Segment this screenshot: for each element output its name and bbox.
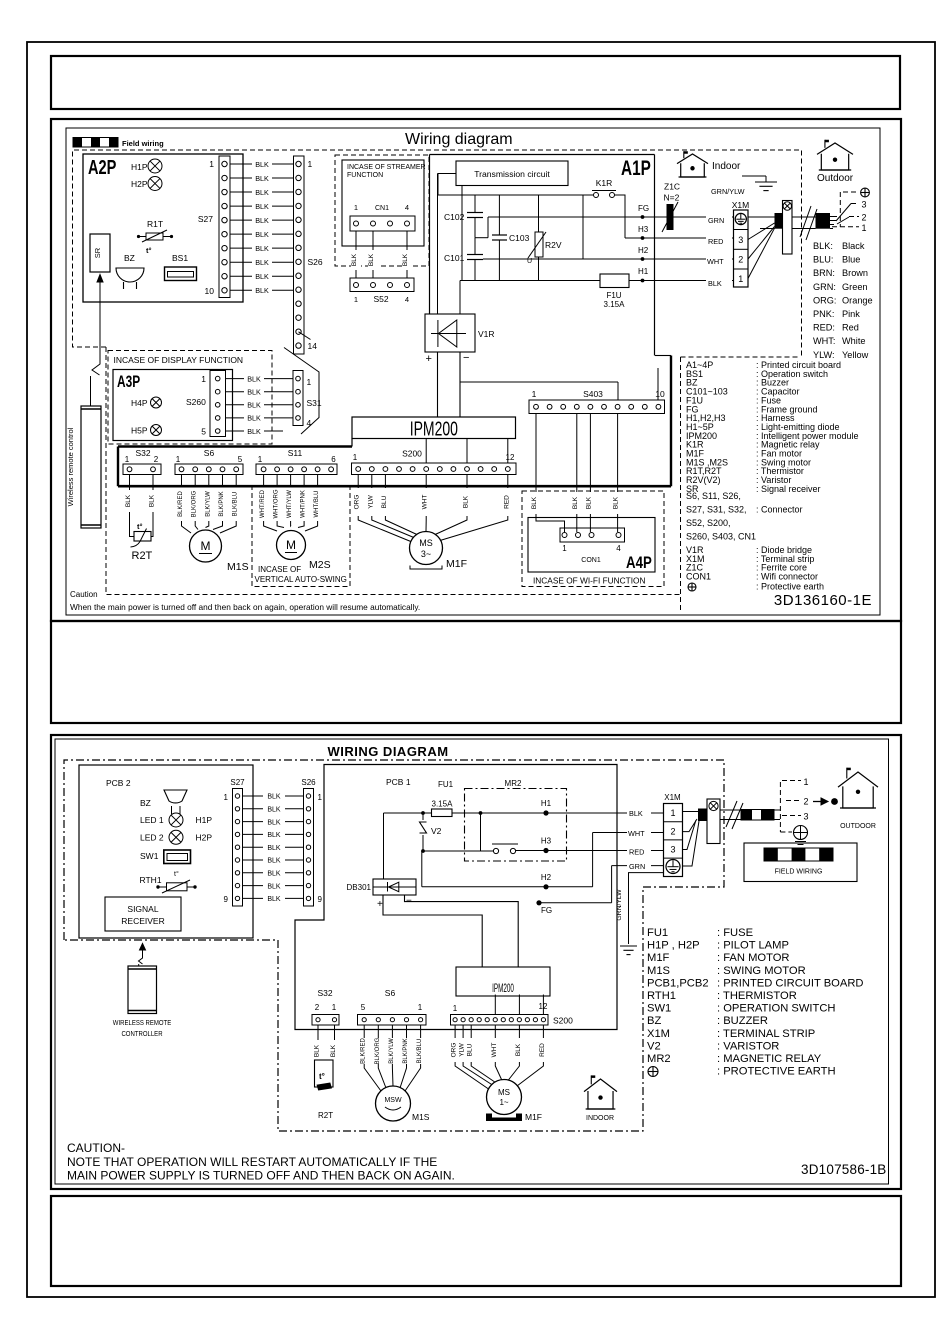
svg-text:CAUTION-: CAUTION- [67, 1141, 125, 1155]
ground symbol indoor [742, 176, 777, 191]
svg-text:BZ: BZ [647, 1015, 661, 1027]
svg-text:INCASE OF: INCASE OF [258, 565, 301, 574]
A1P pcb outline corner [655, 355, 671, 357]
svg-text:: MAGNETIC RELAY: : MAGNETIC RELAY [717, 1053, 822, 1065]
svg-text:2: 2 [804, 797, 809, 807]
svg-text:BLK: BLK [368, 253, 375, 266]
svg-text:3: 3 [670, 845, 675, 855]
svg-text:4: 4 [405, 203, 409, 212]
svg-text:10: 10 [205, 286, 215, 296]
svg-text:6: 6 [331, 455, 336, 464]
svg-text:: BUZZER: : BUZZER [717, 1015, 768, 1027]
svg-text:S27, S31, S32,: S27, S31, S32, [686, 505, 747, 515]
field cable to outdoor [748, 201, 837, 279]
wire DB301 ac input [383, 813, 385, 879]
svg-text:BLK: BLK [247, 414, 261, 423]
svg-text:BLK: BLK [255, 244, 269, 253]
connector S26 [294, 156, 323, 354]
wire H3 line bottom [516, 837, 664, 854]
svg-text:Indoor: Indoor [712, 161, 741, 172]
terminal strip X1M [732, 200, 749, 287]
svg-text:1~: 1~ [499, 1098, 508, 1107]
svg-text:RTH1: RTH1 [647, 990, 676, 1002]
svg-text:M1S: M1S [412, 1112, 430, 1122]
svg-text:1: 1 [354, 203, 358, 212]
svg-text:YLW: YLW [459, 1042, 466, 1056]
magnetic relay MR2 box [465, 779, 567, 861]
svg-text:H2: H2 [541, 873, 552, 882]
svg-text:C103: C103 [509, 233, 530, 243]
svg-text:1: 1 [418, 1003, 423, 1012]
svg-text:H1P , H2P: H1P , H2P [647, 940, 700, 952]
svg-text:−: − [406, 896, 412, 907]
legend component list [686, 360, 859, 592]
svg-text:BLK/RED: BLK/RED [178, 491, 184, 517]
outdoor unit dash-dot boundary [64, 760, 724, 1131]
svg-text:S26: S26 [308, 257, 323, 267]
svg-text:BLK: BLK [255, 216, 269, 225]
connector CN1 [350, 203, 415, 231]
indoor house icon [677, 151, 741, 177]
connector S52 [350, 278, 414, 304]
capacitor C103 [492, 195, 530, 281]
led H5P [131, 425, 162, 436]
caution note [70, 590, 420, 612]
svg-text:BLK: BLK [314, 1044, 321, 1057]
svg-text:INCASE OF WI-FI FUNCTION: INCASE OF WI-FI FUNCTION [533, 576, 645, 586]
svg-text:BRN:: BRN: [813, 268, 835, 278]
svg-text:BLK:: BLK: [813, 241, 833, 251]
svg-text:Green: Green [842, 282, 868, 292]
svg-text:4: 4 [307, 418, 312, 428]
legend component list bottom [647, 927, 864, 1078]
svg-text:BLK/ORG: BLK/ORG [192, 490, 198, 517]
svg-text:BLK/PNK: BLK/PNK [403, 1038, 409, 1063]
svg-text:1: 1 [224, 793, 229, 802]
middle empty box [51, 621, 901, 723]
indoor house icon bottom [584, 1075, 617, 1122]
drawing number 3D107586-1B [801, 1162, 887, 1177]
svg-text:ORG: ORG [354, 495, 361, 510]
outdoor house icon bottom [838, 768, 878, 830]
svg-text:4: 4 [616, 544, 621, 553]
wire relay feed [421, 813, 493, 853]
outdoor terminal callout bottom [780, 777, 808, 845]
svg-text:10: 10 [655, 389, 665, 399]
buzzer BZ [116, 253, 144, 289]
svg-text:Black: Black [842, 241, 865, 251]
svg-text:PCB 1: PCB 1 [386, 777, 411, 787]
svg-text:Caution: Caution [70, 590, 98, 599]
relay contact MR2 [492, 844, 518, 854]
diode bridge DB301 [347, 879, 416, 910]
svg-text:X1M: X1M [664, 793, 681, 802]
connector S6 bottom [358, 988, 427, 1025]
svg-text:S27: S27 [198, 214, 213, 224]
outdoor terminal callout 3 2 1 [832, 188, 869, 233]
svg-text:S52: S52 [373, 294, 388, 304]
svg-text:BLK: BLK [255, 286, 269, 295]
svg-text:Blue: Blue [842, 255, 860, 265]
top empty title box [51, 56, 900, 109]
svg-text:Orange: Orange [842, 295, 873, 305]
svg-text:WHT/ORG: WHT/ORG [274, 489, 280, 518]
svg-text:BLK: BLK [267, 819, 281, 826]
connector S200 bottom [451, 1002, 574, 1026]
svg-text:WHT/YLW: WHT/YLW [287, 490, 293, 518]
thermistor RTH1 [140, 870, 197, 893]
svg-text:C102: C102 [444, 212, 465, 222]
svg-text:BLK: BLK [531, 496, 538, 509]
svg-text:BLK: BLK [629, 809, 643, 818]
svg-text:: TERMINAL STRIP: : TERMINAL STRIP [717, 1028, 815, 1040]
connector CON1 [560, 528, 652, 572]
svg-text:BLK: BLK [255, 202, 269, 211]
pcb A2P [83, 154, 243, 302]
connector S27 bottom [224, 778, 246, 906]
svg-text:BLK: BLK [247, 388, 261, 397]
wires S6 to M1S bottom [361, 1025, 423, 1091]
svg-text:WHT: WHT [628, 829, 645, 838]
svg-text:BLK: BLK [708, 279, 722, 288]
svg-text:t°: t° [174, 870, 179, 878]
svg-text:Pink: Pink [842, 309, 860, 319]
wires S27 to S26 BLK x10 [230, 160, 294, 295]
svg-text:: Signal receiver: : Signal receiver [756, 484, 821, 494]
arrow to outdoor [813, 798, 838, 805]
svg-text:INCASE OF STREAMER: INCASE OF STREAMER [347, 164, 426, 171]
svg-text:1: 1 [201, 374, 206, 384]
fan motor M1F bottom [486, 1080, 542, 1123]
svg-text:2: 2 [670, 827, 675, 837]
swing motor M1S bottom [376, 1086, 430, 1122]
svg-text:White: White [842, 336, 866, 346]
svg-text:5: 5 [361, 1003, 366, 1012]
svg-text:: VARISTOR: : VARISTOR [717, 1040, 779, 1052]
svg-text:5: 5 [201, 427, 206, 437]
wires CN1 to S52 BLK x3 [351, 231, 412, 278]
svg-text:BLK: BLK [572, 496, 579, 509]
svg-text:WHT/BLU: WHT/BLU [314, 491, 320, 518]
svg-text:FG: FG [638, 204, 649, 213]
wire GRN to ground [612, 866, 664, 944]
svg-text:RED: RED [539, 1043, 546, 1057]
incase of vertical auto-swing box [252, 487, 350, 587]
connector S11 [256, 448, 337, 475]
wireless remote control arrow [91, 275, 104, 407]
svg-text:3: 3 [862, 200, 867, 210]
svg-text:1: 1 [318, 793, 323, 802]
svg-text:PNK:: PNK: [813, 309, 834, 319]
svg-text:Yellow: Yellow [842, 350, 869, 360]
svg-text:V2: V2 [431, 826, 442, 836]
svg-text:BLK: BLK [247, 374, 261, 383]
svg-text:: FUSE: : FUSE [717, 927, 753, 939]
wires S11 to M2S [260, 475, 320, 532]
svg-text:BLK: BLK [267, 794, 281, 801]
svg-text:Field wiring: Field wiring [122, 139, 164, 148]
wires DB301 to IPM200 [383, 895, 518, 967]
svg-text:BLK/BLU: BLK/BLU [233, 492, 239, 517]
svg-text:BLK: BLK [613, 496, 620, 509]
svg-text:BLK: BLK [255, 174, 269, 183]
svg-text:WHT/RED: WHT/RED [260, 489, 266, 518]
svg-text:BLK: BLK [255, 188, 269, 197]
wires S260 to S31 BLK x5 [226, 374, 294, 435]
svg-text:M2S: M2S [309, 559, 331, 571]
svg-text:BS1: BS1 [172, 253, 188, 263]
thermistor R1T [137, 219, 173, 255]
svg-text:H1: H1 [541, 799, 552, 808]
svg-text:: OPERATION SWITCH: : OPERATION SWITCH [717, 1003, 836, 1015]
ferrite core Z1C [662, 182, 680, 233]
svg-text:: Protective earth: : Protective earth [756, 582, 824, 592]
lower wiring diagram panel border [51, 735, 901, 1189]
svg-text:MS: MS [498, 1088, 510, 1097]
svg-text:BLK: BLK [247, 401, 261, 410]
svg-text:BLK: BLK [330, 1044, 337, 1057]
svg-text:MR2: MR2 [505, 779, 522, 788]
svg-text:R2T: R2T [318, 1111, 333, 1120]
incase of display function box [108, 351, 272, 445]
svg-text:3D136160-1E: 3D136160-1E [774, 592, 872, 609]
svg-text:Wireless remote control: Wireless remote control [66, 427, 75, 506]
svg-text:1: 1 [209, 159, 214, 169]
svg-text:GRN:: GRN: [813, 282, 836, 292]
svg-text:BLK: BLK [267, 883, 281, 890]
svg-text:BLK: BLK [515, 1043, 522, 1056]
connector S403 [529, 389, 665, 414]
wires S6 to M1S [178, 475, 239, 534]
wires S32 to R2T BLK x2 [125, 475, 156, 508]
svg-text:Red: Red [842, 323, 859, 333]
pcb PCB2 [79, 765, 253, 938]
svg-text:1: 1 [353, 453, 358, 462]
thermistor R2T bottom [315, 1060, 334, 1120]
svg-text:M1F: M1F [525, 1112, 542, 1122]
wires IPM200 to S200 bottom [495, 995, 543, 1015]
svg-text:ORG:: ORG: [813, 295, 836, 305]
harness outline S26 to S31 [284, 332, 319, 434]
svg-text:VERTICAL AUTO-SWING: VERTICAL AUTO-SWING [255, 575, 347, 584]
svg-text:When the main power is turned: When the main power is turned off and th… [70, 602, 420, 612]
svg-text:GRN/YLW: GRN/YLW [616, 889, 623, 921]
svg-text:2: 2 [862, 213, 867, 223]
svg-text:V1R: V1R [478, 329, 495, 339]
svg-text:BZ: BZ [124, 253, 135, 263]
wire H3 line [625, 225, 734, 240]
svg-text:RED:: RED: [813, 323, 835, 333]
wireless remote controller arrow bottom [139, 944, 146, 967]
wires S200 to M1F bottom [451, 1025, 546, 1090]
svg-text:N=2: N=2 [664, 193, 680, 203]
field wiring legend checker [73, 138, 164, 149]
svg-text:FU1: FU1 [647, 927, 668, 939]
svg-text:PCB1,PCB2: PCB1,PCB2 [647, 977, 709, 989]
svg-text:M: M [286, 538, 296, 552]
svg-text:RED: RED [708, 237, 723, 246]
svg-text:WIRING DIAGRAM: WIRING DIAGRAM [327, 744, 448, 759]
svg-text:V2: V2 [647, 1040, 661, 1052]
svg-text:Transmission circuit: Transmission circuit [474, 169, 550, 179]
svg-text:BLU: BLU [381, 495, 388, 508]
svg-text:H2P: H2P [196, 833, 213, 843]
wire H2 line bottom [422, 833, 664, 890]
title Wiring diagram [405, 131, 513, 148]
svg-text:Z1C: Z1C [664, 182, 680, 192]
svg-text:BLK: BLK [463, 495, 470, 508]
svg-text:BLK: BLK [267, 871, 281, 878]
svg-text:MSW: MSW [384, 1097, 402, 1104]
svg-text:MR2: MR2 [647, 1053, 671, 1065]
svg-text:3.15A: 3.15A [604, 300, 626, 309]
svg-text:1: 1 [125, 455, 130, 464]
svg-text:1: 1 [354, 295, 358, 304]
svg-text:H4P: H4P [131, 398, 148, 408]
svg-text:A1P: A1P [621, 156, 651, 180]
svg-text:WHT: WHT [422, 495, 429, 510]
signal receiver SR [90, 234, 110, 272]
svg-text:X1M: X1M [732, 200, 749, 210]
svg-text:2: 2 [315, 1003, 320, 1012]
svg-text:BLK: BLK [255, 230, 269, 239]
svg-text:BLU: BLU [467, 1043, 474, 1056]
signal receiver block [105, 897, 181, 931]
frame ground FG bottom [536, 866, 611, 915]
svg-text:BLK: BLK [267, 832, 281, 839]
svg-text:1: 1 [804, 777, 809, 787]
wire labels BLK WHT RED GRN bottom [627, 807, 651, 871]
led LED 2 H2P [140, 830, 212, 844]
svg-text:LED 1: LED 1 [140, 815, 164, 825]
svg-text:: Connector: : Connector [756, 505, 803, 515]
svg-text:BLK/PNK: BLK/PNK [219, 491, 225, 516]
svg-text:BLK: BLK [255, 272, 269, 281]
svg-text:FUNCTION: FUNCTION [347, 172, 383, 179]
capacitor C102 [444, 195, 488, 238]
fuse FU1 [432, 780, 454, 817]
wires IPM200 to S200 [426, 439, 508, 464]
svg-text:BLK/YLW: BLK/YLW [205, 491, 211, 517]
swing motor M2S [277, 531, 331, 572]
svg-text:S6, S11, S26,: S6, S11, S26, [686, 491, 741, 501]
title WIRING DIAGRAM [327, 744, 448, 759]
svg-text:FG: FG [541, 906, 552, 915]
svg-text:BLK: BLK [267, 896, 281, 903]
svg-text:H1P: H1P [131, 162, 148, 172]
module IPM200 [352, 417, 516, 440]
connector S27 [198, 156, 230, 298]
svg-text:K1R: K1R [596, 178, 613, 188]
pcb A1P [430, 155, 655, 356]
svg-text:H2: H2 [638, 246, 649, 255]
svg-text:: SWING MOTOR: : SWING MOTOR [717, 965, 806, 977]
svg-text:1: 1 [453, 1004, 458, 1013]
svg-text:M: M [201, 539, 211, 553]
svg-text:PCB 2: PCB 2 [106, 778, 131, 788]
svg-text:: PILOT LAMP: : PILOT LAMP [717, 940, 789, 952]
buzzer BZ bottom [140, 790, 187, 814]
led LED 1 H1P [140, 813, 212, 827]
svg-text:+: + [377, 899, 383, 910]
svg-text:S32: S32 [135, 448, 150, 458]
upper wiring diagram panel border [51, 119, 901, 621]
svg-text:A4P: A4P [626, 554, 652, 573]
bus V1R to IPM200 [438, 352, 461, 417]
connector S260 [186, 371, 226, 437]
svg-text:1: 1 [176, 455, 181, 464]
svg-text:: Wifi connector: : Wifi connector [756, 572, 818, 582]
svg-text:3~: 3~ [421, 549, 431, 559]
transmission circuit block [456, 161, 568, 186]
svg-text:M1S: M1S [647, 965, 670, 977]
svg-text:S6: S6 [385, 988, 396, 998]
svg-text:YLW:: YLW: [813, 350, 835, 360]
svg-text:BLK: BLK [267, 845, 281, 852]
svg-text:S32: S32 [317, 988, 332, 998]
module IPM200 bottom [456, 967, 550, 996]
svg-text:YLW: YLW [367, 494, 374, 508]
svg-text:R2T: R2T [132, 550, 153, 562]
svg-text:+: + [426, 353, 432, 365]
led H4P [131, 397, 162, 408]
pilot lamp H1P [131, 159, 162, 173]
svg-text:CN1: CN1 [375, 205, 389, 212]
svg-text:Outdoor: Outdoor [817, 173, 854, 184]
svg-text:NOTE THAT OPERATION WILL RESTA: NOTE THAT OPERATION WILL RESTART AUTOMAT… [67, 1155, 437, 1169]
svg-text:14: 14 [308, 341, 318, 351]
svg-text:BLU:: BLU: [813, 255, 833, 265]
svg-text:BLK: BLK [267, 807, 281, 814]
svg-text:MAIN POWER SUPPLY IS TURNED OF: MAIN POWER SUPPLY IS TURNED OFF AND THEN… [67, 1169, 455, 1183]
svg-text:BLK/YLW: BLK/YLW [389, 1038, 395, 1064]
svg-text:GRN: GRN [708, 216, 724, 225]
svg-text:t°: t° [137, 522, 143, 531]
svg-text:Brown: Brown [842, 268, 868, 278]
svg-text:2: 2 [738, 255, 743, 265]
svg-text:3.15A: 3.15A [432, 800, 454, 809]
svg-text:S200: S200 [553, 1016, 573, 1026]
wire fuse line H1 [384, 799, 664, 816]
svg-text:RED: RED [503, 495, 510, 509]
svg-text:BLK: BLK [586, 496, 593, 509]
svg-text:4: 4 [405, 295, 409, 304]
operation switch BS1 [165, 253, 197, 281]
svg-text:1: 1 [258, 455, 263, 464]
svg-text:SIGNAL: SIGNAL [127, 904, 158, 914]
svg-text:BLK: BLK [255, 160, 269, 169]
swing motor M1S [190, 530, 249, 573]
svg-text:H1P: H1P [196, 815, 213, 825]
svg-text:BLK/BLU: BLK/BLU [417, 1039, 423, 1064]
svg-text:t°: t° [146, 246, 152, 255]
svg-text:3D107586-1B: 3D107586-1B [801, 1162, 887, 1177]
svg-text:1: 1 [332, 1003, 337, 1012]
svg-text:SR: SR [93, 247, 102, 258]
svg-text:BLK: BLK [247, 427, 261, 436]
svg-text:−: − [463, 352, 469, 364]
relay contact K1R [592, 178, 616, 198]
connector S31 [293, 371, 322, 429]
svg-text:X1M: X1M [647, 1028, 670, 1040]
svg-text:BLK: BLK [149, 494, 156, 507]
svg-text:S11: S11 [288, 448, 303, 458]
svg-text:M1S: M1S [227, 561, 249, 573]
svg-text:H3: H3 [638, 225, 649, 234]
svg-text:CON1: CON1 [581, 557, 601, 564]
wires S403 to CON1 BLK x4 [531, 414, 623, 533]
svg-text:R2V: R2V [545, 240, 562, 250]
